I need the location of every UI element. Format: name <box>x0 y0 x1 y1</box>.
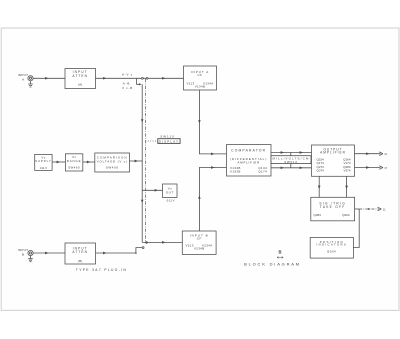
svg-text:SW400: SW400 <box>106 166 119 170</box>
display mode labels A-Vc / A-B / Vc-B <box>122 72 133 89</box>
wire: input A CF to comparator <box>198 90 226 155</box>
svg-text:(A): (A) <box>78 83 82 87</box>
wire: comparator to output amplifier (lower) <box>271 166 312 169</box>
wire: SW110 ganged linkage (dash-dot) <box>144 79 146 243</box>
input connector J1 (INPUT A) <box>18 73 33 82</box>
input B cathode follower V213 V234A V234B <box>182 231 216 254</box>
input A cathode follower V113 V134A V134B <box>184 66 217 90</box>
comparison voltage SW400 <box>95 153 130 172</box>
title: TYPE 3A7 PLUG-IN <box>76 268 127 272</box>
wire: output amplifier to CRT (upper) pin 11 <box>355 152 388 156</box>
svg-text:V213: V213 <box>186 243 194 247</box>
svg-text:TYPE 3A7 PLUG-IN: TYPE 3A7 PLUG-IN <box>76 268 127 272</box>
svg-text:V234B: V234B <box>194 246 205 250</box>
wire: output amplifier to sig/trig take off (left) <box>318 176 321 197</box>
wire: Vc bus (vertical) <box>141 84 144 242</box>
wire J1 to input atten A <box>33 77 65 80</box>
wire: switch stub from B line up to contact <box>136 247 144 253</box>
Vc range switch SW460 <box>65 154 82 171</box>
svg-text:DISPLAY: DISPLAY <box>159 139 179 143</box>
svg-text:V193B: V193B <box>230 169 241 173</box>
Vc supply <box>35 154 52 170</box>
svg-text:ATTEN: ATTEN <box>72 74 88 78</box>
svg-text:A-B: A-B <box>123 81 130 85</box>
node: switch contacts on A line (SW110) <box>142 77 149 79</box>
svg-text:CF: CF <box>197 237 202 241</box>
node: SW110 contact on B feed <box>146 242 148 244</box>
wire SW400 to Vc bus <box>130 160 143 163</box>
wire J2 to input atten B <box>33 252 65 255</box>
svg-text:B: B <box>22 252 24 256</box>
svg-text:11: 11 <box>383 207 386 211</box>
svg-text:CF: CF <box>198 73 203 77</box>
svg-text:INPUT: INPUT <box>18 248 29 252</box>
svg-text:SW110: SW110 <box>160 135 175 139</box>
wire: gang link through millivolts/cm switch <box>290 153 292 168</box>
svg-text:17: 17 <box>384 166 387 170</box>
wire: take off output (dash-dot) pin 11 <box>355 207 386 211</box>
svg-text:BLOCK DIAGRAM: BLOCK DIAGRAM <box>244 261 301 266</box>
svg-text:ATTEN: ATTEN <box>72 250 88 254</box>
svg-text:±11 V: ±11 V <box>40 166 47 170</box>
Vc OUT front panel jack <box>163 184 178 202</box>
svg-text:INDICATORS: INDICATORS <box>317 243 348 247</box>
switch SW110 DISPLAY label <box>145 135 180 144</box>
wire: output amplifier to CRT (lower) pin 17 <box>355 166 388 170</box>
svg-text:AMPLIFIER: AMPLIFIER <box>237 160 260 164</box>
switch MILLIVOLTS/CM SW510 label <box>271 156 311 164</box>
svg-text:SW510: SW510 <box>284 160 297 164</box>
position indicators <box>310 238 353 259</box>
wire atten A to input A CF (display switch line) <box>96 77 184 80</box>
comparator differential amplifier <box>227 145 272 177</box>
svg-text:AMPLIFIER: AMPLIFIER <box>320 151 346 155</box>
svg-text:SUPPLY: SUPPLY <box>35 159 52 163</box>
svg-text:B504: B504 <box>327 250 336 254</box>
svg-text:RANGE: RANGE <box>67 159 82 163</box>
input attenuator B <box>65 243 96 264</box>
output amplifier <box>312 145 355 176</box>
svg-text:Q374: Q374 <box>317 169 325 173</box>
wire: position indicators to take off output node <box>353 209 359 248</box>
svg-text:V374: V374 <box>343 169 350 173</box>
input connector J2 (INPUT B) <box>18 248 33 257</box>
ground (input B) <box>28 256 33 262</box>
svg-text:V c-B: V c-B <box>122 86 133 90</box>
wire: Vc bus / switch to input B CF <box>142 241 182 244</box>
svg-text:COMPARATOR: COMPARATOR <box>231 149 266 153</box>
svg-text:0-11 V: 0-11 V <box>167 198 175 202</box>
svg-text:(B): (B) <box>78 259 82 263</box>
wire Vc range to comparison voltage <box>83 161 95 164</box>
svg-text:V134B: V134B <box>195 84 206 88</box>
svg-text:Q284: Q284 <box>314 213 322 217</box>
svg-text:A-V c: A-V c <box>122 72 133 76</box>
svg-text:Q294: Q294 <box>342 213 350 217</box>
input attenuator A <box>65 69 96 89</box>
wire: switch stub from A line to Vc bus <box>137 78 142 85</box>
wire: input B CF to comparator <box>198 166 226 231</box>
figure marker B <box>277 250 283 259</box>
svg-text:V113: V113 <box>187 81 195 85</box>
wire supply to Vc range <box>52 161 65 164</box>
wire: output amplifier to sig/trig take off (right) <box>345 176 348 197</box>
svg-text:SW460: SW460 <box>68 166 80 170</box>
sig/trig take off amplifier <box>311 197 355 221</box>
svg-text:INPUT: INPUT <box>18 73 29 77</box>
wire: Vc bus to Vc OUT jack <box>142 189 162 192</box>
svg-text:VOLTAGE (V c): VOLTAGE (V c) <box>97 159 128 163</box>
wire atten B to SW110 switch <box>96 252 137 255</box>
svg-text:B: B <box>278 250 281 255</box>
wire: comparator to output amplifier (upper) <box>271 151 312 154</box>
title: BLOCK DIAGRAM <box>244 261 301 266</box>
svg-text:OUT: OUT <box>166 190 174 194</box>
svg-text:TAKE OFF: TAKE OFF <box>320 205 346 209</box>
svg-text:Q174: Q174 <box>258 169 267 173</box>
ground (input A) <box>28 81 33 87</box>
